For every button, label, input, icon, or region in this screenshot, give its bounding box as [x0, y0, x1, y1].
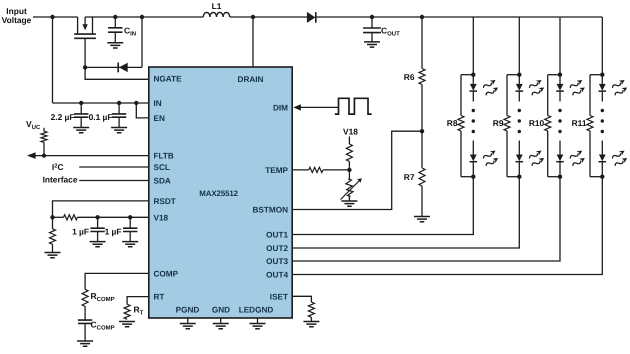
PWM square wave symbol — [335, 98, 372, 114]
wire GND stub — [220, 318, 222, 324]
svg-text:COMP: COMP — [154, 269, 179, 278]
svg-text:V18: V18 — [343, 127, 358, 137]
node FLTB-resistor junction — [42, 154, 46, 158]
svg-text:DIM: DIM — [273, 104, 288, 113]
svg-text:DRAIN: DRAIN — [238, 75, 264, 84]
node input branch junction — [50, 15, 54, 19]
LED emission arrows (string 4 top) — [611, 78, 626, 90]
svg-text:R8: R8 — [447, 118, 458, 128]
node 0.1uF junction — [117, 101, 121, 105]
wire EN branch — [136, 103, 149, 118]
ground (RT) — [119, 322, 135, 327]
svg-text:NGATE: NGATE — [154, 75, 183, 84]
node EN branch junction — [134, 101, 138, 105]
svg-text:RT: RT — [154, 293, 165, 302]
ellipsis dots (more LEDs, string 2) — [518, 109, 521, 112]
ground (GND) — [213, 324, 229, 329]
resistor (VUC pull-up) — [41, 128, 47, 156]
diode D2 (boost rectifier, pointing right) — [307, 12, 316, 23]
wire PGND stub — [187, 318, 189, 324]
wire V18 row left part — [53, 216, 64, 218]
wire RCOMP to CCOMP — [84, 306, 86, 320]
ellipsis dots (more LEDs, string 3) — [558, 109, 561, 112]
node COUT junction — [370, 15, 374, 19]
wire DRAIN vertical — [252, 17, 254, 67]
wire SDA — [79, 180, 149, 182]
wire top rail L1 to rectifier diode — [230, 16, 308, 18]
node 1uF cap1 junction — [95, 215, 99, 219]
LED emission arrows (string 2 top) — [528, 78, 543, 90]
wire V18 row right part — [77, 216, 148, 218]
ground (RSDT resistor) — [45, 253, 61, 258]
ground (1uF second) — [122, 242, 138, 247]
svg-text:L1: L1 — [212, 1, 222, 11]
svg-text:EN: EN — [154, 114, 165, 123]
node CIN junction — [113, 15, 117, 19]
svg-text:1 µF: 1 µF — [72, 227, 89, 237]
resistor R7 — [419, 131, 425, 216]
resistor R9 (parallel ballast) — [504, 75, 510, 177]
node string 4 bottom junction — [600, 175, 604, 179]
ground (CCOMP) — [77, 341, 93, 346]
node RSDT/V18 junction — [50, 215, 54, 219]
svg-text:0.1 µF: 0.1 µF — [89, 112, 113, 122]
wire OUT4 routing — [292, 177, 602, 275]
LED string 2 (feed from rail) — [518, 17, 520, 75]
resistor (RSDT pull-down) — [50, 217, 56, 252]
ground (PGND) — [180, 324, 196, 329]
resistor R6 — [419, 17, 425, 131]
svg-text:GND: GND — [212, 306, 230, 315]
wire FLTB row — [35, 155, 149, 157]
wire BSTMON — [292, 131, 422, 209]
resistor R8 (parallel ballast) — [458, 75, 464, 177]
LED D3a (top of string 3) — [556, 75, 564, 102]
svg-text:SCL: SCL — [154, 163, 170, 172]
svg-text:LEDGND: LEDGND — [239, 306, 274, 315]
svg-text:V18: V18 — [154, 213, 169, 222]
svg-text:MAX25512: MAX25512 — [199, 189, 238, 198]
resistor (V18 series) — [64, 215, 78, 220]
wire gate row horizontal — [85, 66, 142, 68]
wire string 4 bottom bar — [590, 176, 602, 178]
arrow DIM input (pointing left) — [293, 104, 301, 110]
resistor R11 (parallel ballast) — [587, 75, 593, 177]
svg-text:TEMP: TEMP — [265, 166, 288, 175]
node string 4 top junction — [600, 73, 604, 77]
LED D4b (bottom of string 4) — [599, 141, 607, 177]
svg-text:OUT4: OUT4 — [266, 271, 288, 280]
wire string 2 top bar — [507, 74, 519, 76]
node string 3 bottom junction — [558, 175, 562, 179]
node FET drain / NGATE junction — [83, 65, 87, 69]
capacitor 1uF (second) — [123, 217, 137, 241]
svg-text:2.2 µF: 2.2 µF — [51, 112, 75, 122]
svg-text:R11: R11 — [572, 118, 587, 128]
wire input branch vertical down to IN row — [52, 17, 54, 103]
svg-text:I2C: I2C — [52, 162, 64, 172]
wire RSDT row — [53, 201, 149, 217]
node rail-diode vertical junction — [140, 15, 144, 19]
LED emission arrows (string 3 top) — [569, 78, 584, 90]
svg-text:RSDT: RSDT — [154, 197, 176, 206]
LED emission arrows (string 2 bottom) — [528, 148, 543, 160]
wire RT row — [127, 297, 149, 305]
capacitor CCOMP — [78, 320, 92, 341]
LED string 4 (feed from rail) — [601, 17, 603, 75]
svg-text:OUT1: OUT1 — [266, 231, 288, 240]
svg-text:R10: R10 — [529, 118, 545, 128]
wire TEMP right segment — [323, 169, 349, 171]
wire string 4 top bar — [590, 74, 602, 76]
svg-text:R7: R7 — [404, 172, 415, 182]
wire TEMP left segment — [292, 169, 309, 171]
resistor R10 (parallel ballast) — [545, 75, 551, 177]
resistor (V18 pull-up to TEMP) — [346, 137, 352, 170]
wire input rail middle segment (FET source to L1) — [85, 16, 203, 18]
resistor RT — [124, 304, 130, 319]
wire OUT3 routing — [292, 177, 560, 261]
LED D3b (bottom of string 3) — [556, 141, 564, 177]
LED D1b (bottom of string 1) — [470, 141, 478, 177]
node string 1 top junction — [471, 73, 475, 77]
ground (2.2uF) — [73, 128, 89, 133]
node string 2 top junction — [517, 73, 521, 77]
ground (ISET resistor) — [303, 322, 319, 327]
ground (COUT) — [364, 42, 380, 47]
svg-text:ISET: ISET — [270, 292, 288, 301]
LED D1a (top of string 1) — [470, 75, 478, 102]
ellipsis dots (more LEDs, string 4) — [601, 109, 604, 112]
wire string 1 top bar — [461, 74, 473, 76]
node TEMP junction — [347, 168, 351, 172]
ground (1uF first) — [90, 242, 106, 247]
thermistor (NTC) — [341, 170, 362, 201]
resistor (ISET) — [308, 302, 314, 317]
wire NGATE connection — [85, 67, 149, 79]
node 2.2uF junction — [79, 101, 83, 105]
wire SCL — [79, 166, 149, 168]
node string 3 top junction — [558, 73, 562, 77]
LED emission arrows (string 1 bottom) — [482, 148, 497, 160]
ground (LEDGND) — [250, 324, 266, 329]
wire ISET — [292, 296, 311, 302]
LED string 1 (feed from rail) — [472, 17, 474, 75]
svg-text:OUT2: OUT2 — [266, 244, 288, 253]
svg-text:OUT3: OUT3 — [266, 257, 288, 266]
capacitor COUT — [363, 17, 381, 42]
svg-text:1 µF: 1 µF — [105, 227, 122, 237]
wire input rail left segment — [33, 16, 78, 18]
wire IN row — [53, 102, 149, 104]
node string 1 bottom junction — [471, 175, 475, 179]
wire string 3 top bar — [548, 74, 560, 76]
LED D2b (bottom of string 2) — [516, 141, 524, 177]
LED D2a (top of string 2) — [516, 75, 524, 102]
wire string 2 bottom bar — [507, 176, 519, 178]
svg-text:IN: IN — [154, 99, 162, 108]
LED emission arrows (string 4 bottom) — [611, 148, 626, 160]
LED emission arrows (string 3 bottom) — [569, 148, 584, 160]
diode D1 (gate clamp, pointing left) — [118, 63, 128, 73]
svg-text:FLTB: FLTB — [154, 152, 174, 161]
svg-text:Voltage: Voltage — [2, 15, 32, 25]
ground (thermistor) — [341, 201, 357, 206]
capacitor 0.1uF — [112, 103, 126, 128]
arrow FLTB (pointing left) — [27, 152, 36, 159]
wire diode to rail vertical — [141, 17, 143, 67]
inductor L1 — [203, 12, 229, 17]
node DRAIN rail junction — [251, 15, 255, 19]
wire OUT2 routing — [292, 177, 519, 248]
resistor RCOMP — [82, 289, 88, 306]
ellipsis dots (more LEDs, string 1) — [472, 109, 475, 112]
ground (0.1uF) — [111, 128, 127, 133]
op-amp/IC U1 MAX25512 body — [149, 67, 292, 318]
node string 2 bottom junction — [517, 175, 521, 179]
ground (CIN) — [107, 43, 123, 48]
svg-text:PGND: PGND — [176, 306, 200, 315]
wire string 3 bottom bar — [548, 176, 560, 178]
capacitor 2.2uF — [74, 103, 88, 128]
svg-text:R9: R9 — [493, 118, 504, 128]
LED emission arrows (string 1 top) — [482, 78, 497, 90]
node BSTMON/R6/R7 junction — [420, 129, 424, 133]
svg-text:BSTMON: BSTMON — [253, 206, 289, 215]
svg-text:R6: R6 — [404, 72, 415, 82]
capacitor 1uF (first) — [90, 217, 104, 241]
node 1uF cap2 junction — [128, 215, 132, 219]
ground (R7) — [414, 217, 430, 222]
capacitor CIN — [108, 17, 122, 43]
wire LEDGND stub — [257, 318, 259, 324]
wire DIM — [300, 106, 339, 108]
LED string 3 (feed from rail) — [559, 17, 561, 75]
wire COMP row — [85, 273, 149, 289]
node R6 rail junction — [420, 15, 424, 19]
LED D4a (top of string 4) — [599, 75, 607, 102]
resistor (TEMP series squiggle) — [309, 167, 323, 172]
transistor Q1 (reverse-protection FET) — [74, 17, 96, 67]
wire OUT1 routing — [292, 177, 473, 235]
wire string 1 bottom bar — [461, 176, 473, 178]
wire top rail diode to right end — [316, 16, 603, 18]
svg-text:Interface: Interface — [43, 174, 78, 184]
svg-text:SDA: SDA — [154, 177, 171, 186]
